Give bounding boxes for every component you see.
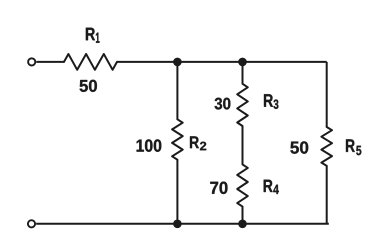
resistor R5 (321, 127, 332, 166)
wire right rail top (326, 62, 328, 127)
resistor R2 (172, 119, 183, 159)
wire node A down to R2 (176, 62, 178, 119)
label R5 (346, 139, 361, 155)
wire right rail bottom (326, 166, 328, 224)
wire R3 to R4 (242, 126, 244, 164)
label R1 (86, 28, 100, 43)
value 30 (R3) (215, 98, 231, 110)
junction node C (bottom of R2) (173, 220, 182, 229)
wire top rail R1 to right rail (117, 61, 327, 63)
junction node D (bottom of R4) (238, 220, 247, 229)
resistor R3 (237, 84, 248, 126)
resistor R1 (64, 54, 117, 70)
value 50 (R5) (290, 141, 308, 153)
value 100 (R2) (137, 139, 162, 151)
resistor R4 (237, 164, 248, 206)
label R3 (264, 94, 278, 109)
terminal top-left (28, 58, 35, 65)
value 50 (R1) (80, 80, 97, 92)
junction node A (top of R2) (173, 58, 182, 67)
terminal bottom-left (28, 220, 35, 227)
wire node B down to R3 (242, 62, 244, 84)
wire bottom rail (36, 223, 329, 225)
junction node B (top of R3) (238, 58, 247, 67)
label R4 (264, 180, 279, 194)
wire R4 down to bottom rail (242, 207, 244, 224)
value 70 (R4) (210, 182, 227, 194)
wire R2 down to bottom rail (176, 160, 178, 224)
wire top terminal to R1 (36, 61, 64, 63)
label R2 (190, 136, 206, 150)
